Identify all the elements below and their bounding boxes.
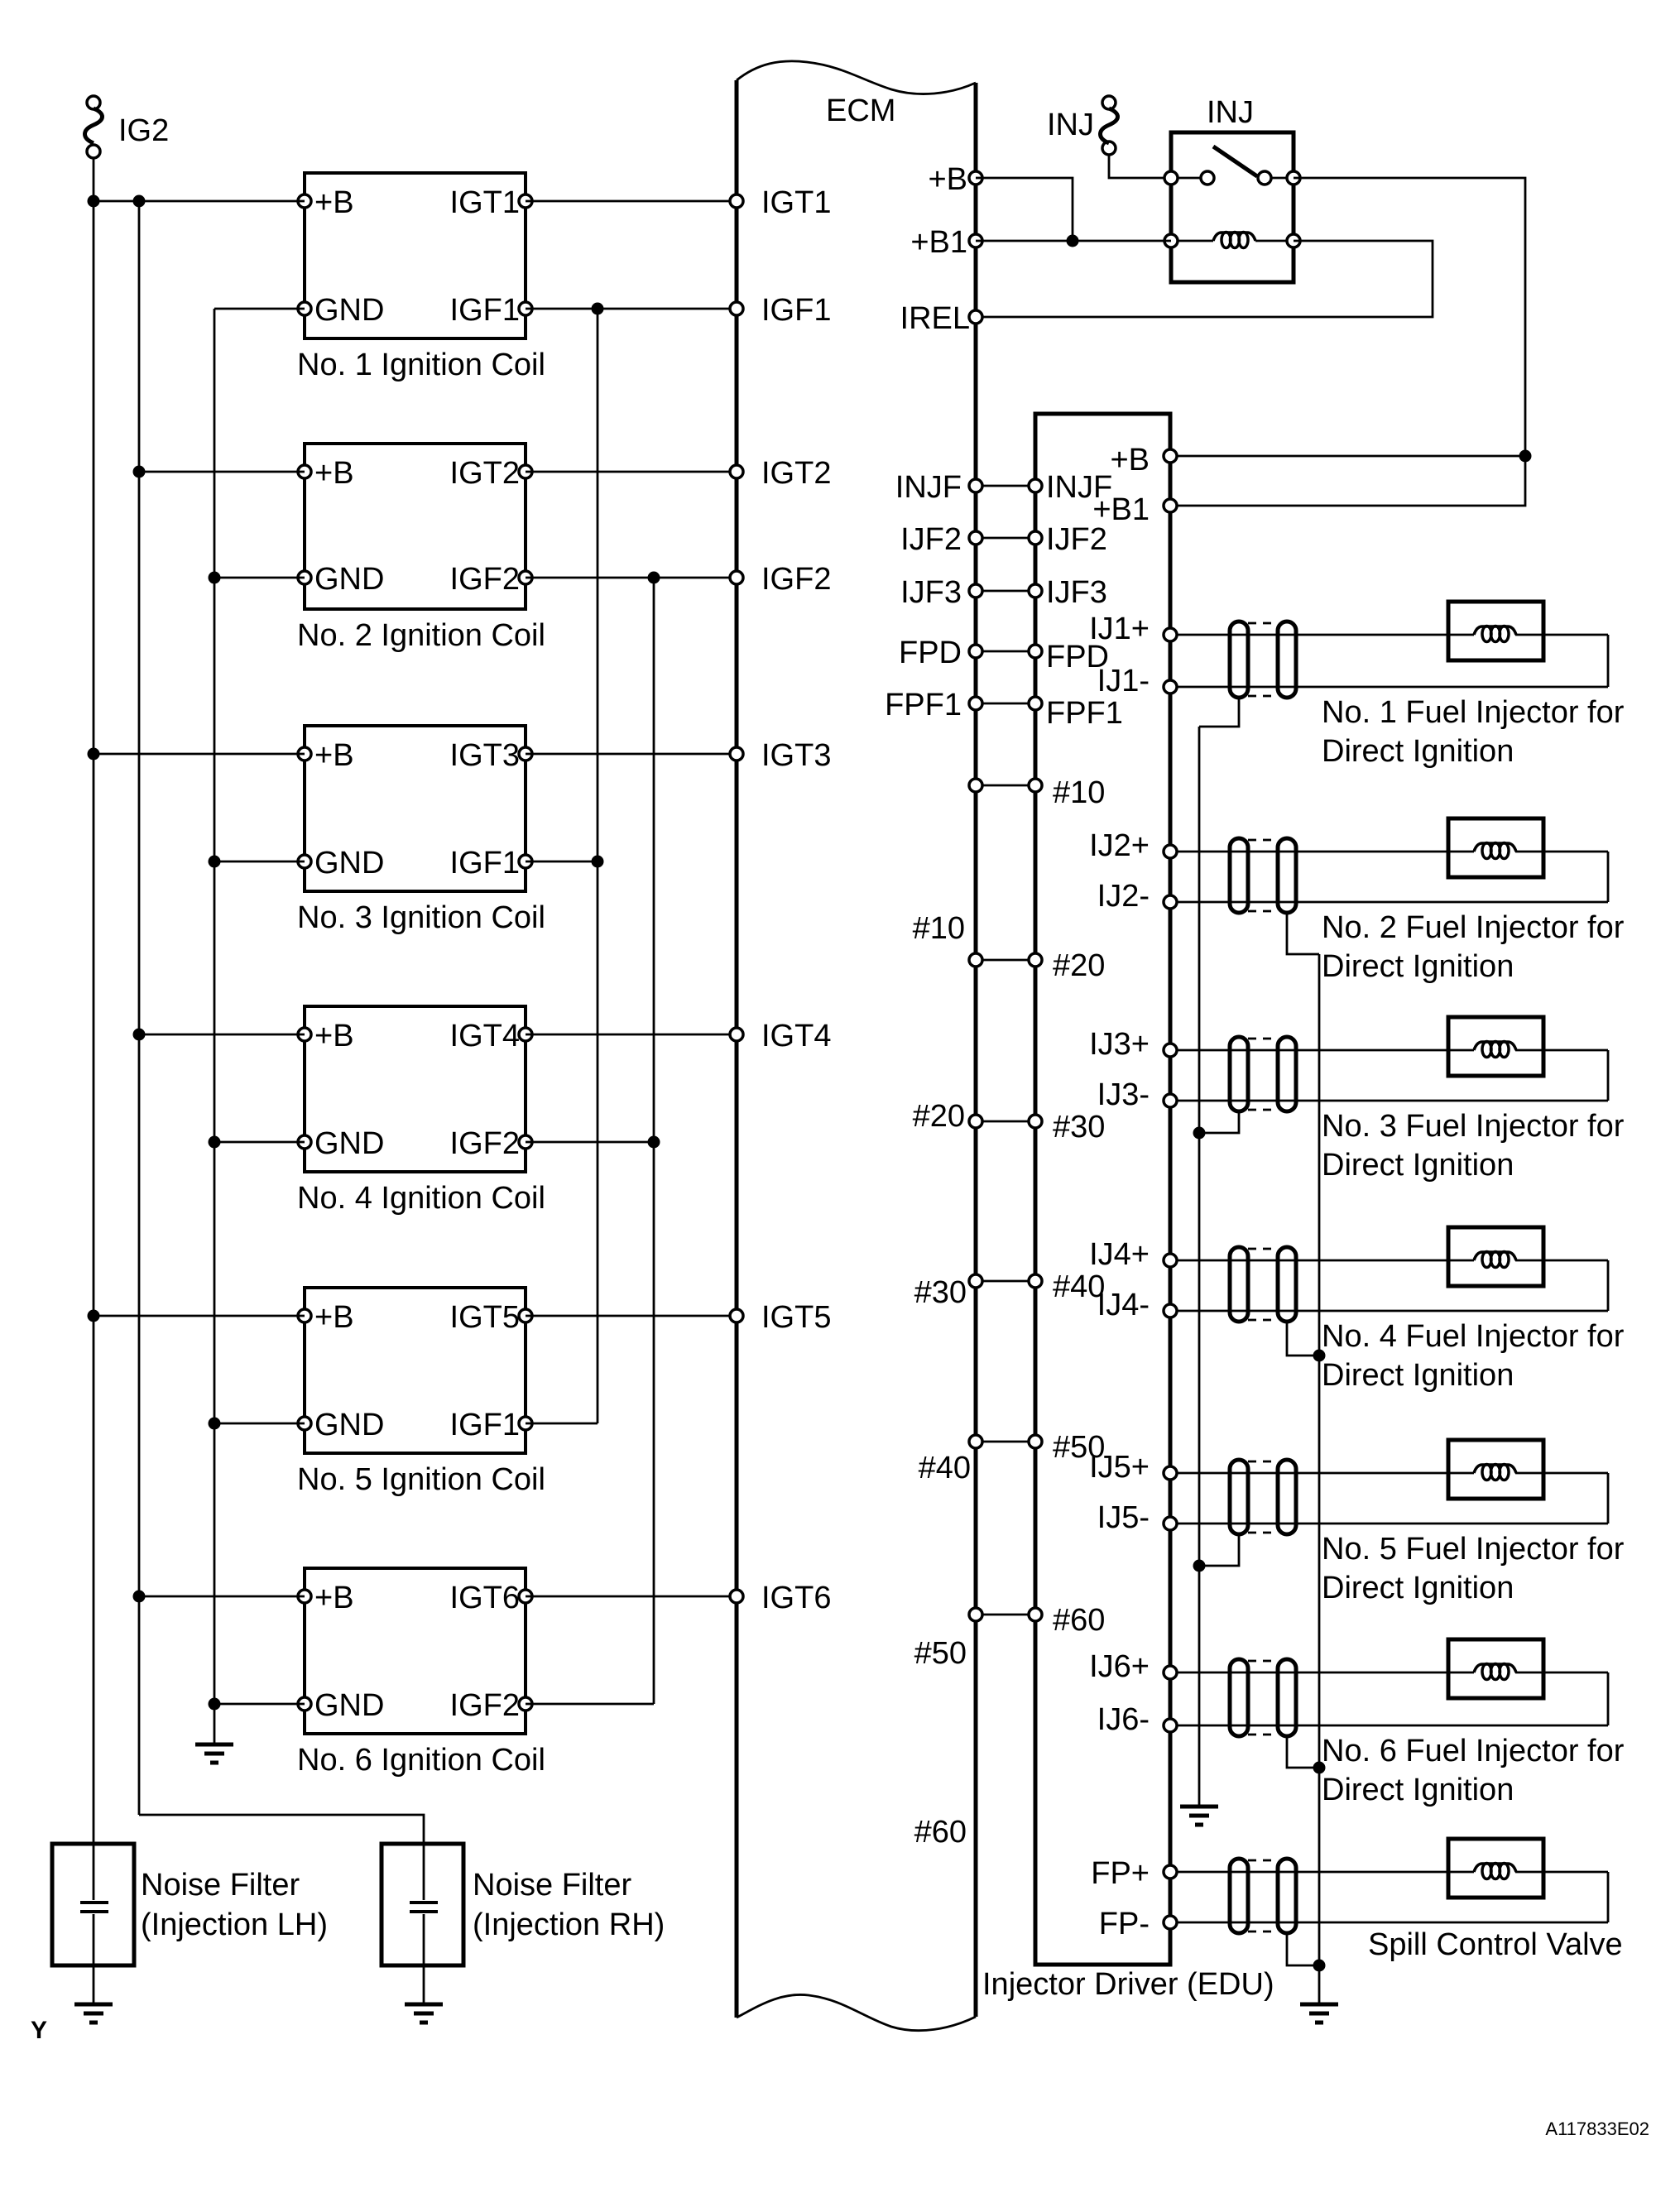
wire IGF1 coil1 to ECM (526, 308, 737, 310)
label Y (31, 2017, 47, 2044)
wire GND coil1 to L3 (214, 308, 305, 310)
ignition coil box No.1 (305, 173, 526, 338)
wire shield drain conn1 (1199, 698, 1239, 727)
svg-text:IGF1: IGF1 (450, 846, 520, 881)
label No. 2 Ignition Coil (297, 618, 545, 653)
svg-text:No. 3 Fuel Injector for: No. 3 Fuel Injector for (1322, 1109, 1625, 1144)
fuel injector 5 box (1448, 1440, 1543, 1499)
coil 4 pin +B (298, 1028, 311, 1041)
wire injector 2 return right (1607, 852, 1610, 902)
ECM top torn edge (737, 61, 976, 94)
svg-text:IGF2: IGF2 (761, 562, 831, 597)
coil 4 pin label IGT4 (450, 1019, 520, 1053)
EDU pin #50 (1029, 1435, 1042, 1448)
wire ECM-EDU IJF3 (982, 590, 1029, 593)
EDU pin label IJ4+ (1089, 1237, 1150, 1272)
EDU pin IJ4+ (1164, 1254, 1177, 1267)
EDU pin label +B1 (1092, 492, 1150, 527)
EDU pin FP- (1164, 1916, 1177, 1929)
ECM pin label IGT4 (761, 1019, 831, 1053)
svg-text:IJ6+: IJ6+ (1089, 1649, 1150, 1684)
label Spill Control Valve (1368, 1927, 1623, 1962)
EDU pin IJF2 (1029, 531, 1042, 545)
EDU pin #60 (1029, 1608, 1042, 1621)
ground symbol shield bus left (1180, 1807, 1218, 1825)
label Direct Ignition 5 (1322, 1571, 1514, 1605)
wire +B coil6 (139, 1596, 305, 1598)
EDU-side pin label #30 (1053, 1110, 1105, 1144)
wire IJ4+ to injector (1177, 1260, 1474, 1262)
coil 5 pin label IGF1 (450, 1408, 520, 1442)
wire ECM-EDU #50 (982, 1441, 1029, 1443)
coil 6 pin IGT6 (519, 1590, 532, 1603)
EDU pin FPF1 (1029, 697, 1042, 710)
svg-text:IJF2: IJF2 (1046, 522, 1107, 557)
svg-text:#30: #30 (1053, 1110, 1105, 1144)
svg-text:GND: GND (314, 1126, 384, 1161)
EDU pin IJ2+ (1164, 845, 1177, 858)
label No. 3 Fuel Injector (1322, 1109, 1625, 1144)
wire injector 3 out (1515, 1049, 1608, 1052)
svg-text:IGT1: IGT1 (761, 185, 831, 220)
ECM pin FPF1 (right edge) (969, 697, 982, 710)
connector 3 dashed bottom (1248, 1109, 1278, 1111)
junction GND row4 (209, 1136, 221, 1149)
coil 2 pin IGT2 (519, 465, 532, 478)
svg-text:No. 1 Fuel Injector for: No. 1 Fuel Injector for (1322, 695, 1625, 730)
junction GND row3 (209, 856, 221, 868)
coil 2 pin +B (298, 465, 311, 478)
wire injector 5 out (1515, 1472, 1608, 1475)
svg-text:IGT4: IGT4 (761, 1019, 831, 1053)
connector FP left oval (1230, 1859, 1248, 1933)
EDU pin #20 (1029, 953, 1042, 967)
coil 1 pin IGT1 (519, 194, 532, 208)
svg-text:IGF2: IGF2 (450, 1688, 520, 1723)
ground symbol noise filter LH (74, 2004, 113, 2023)
wire injector 3 return right (1607, 1050, 1610, 1101)
coil 6 pin label IGT6 (450, 1581, 520, 1615)
EDU-side pin label #40 (1053, 1269, 1105, 1304)
junction GND row6 (209, 1698, 221, 1711)
net label IG2 (118, 113, 169, 148)
EDU-side pin label #20 (1053, 948, 1105, 983)
ECM pin label IGF1 (761, 293, 831, 328)
wire ECM-EDU #20 (982, 959, 1029, 962)
wire ECM-EDU #40 (982, 1280, 1029, 1283)
ECM pin #20 (right edge) (969, 953, 982, 967)
EDU-side pin label INJF (1046, 470, 1112, 505)
wire +B feeder bus L1 (x=113) (93, 201, 95, 1900)
EDU-side pin label IJF3 (1046, 575, 1107, 610)
svg-text:#50: #50 (914, 1636, 967, 1671)
svg-text:IJ6-: IJ6- (1097, 1702, 1150, 1737)
wire IG2 drop (93, 158, 95, 201)
wire ECM +B to +B1 node (976, 178, 1073, 241)
EDU-side pin label #10 (1053, 775, 1105, 810)
relay contact inner right (1258, 171, 1271, 185)
svg-text:#60: #60 (914, 1815, 967, 1850)
capacitor noise filter RH (410, 1903, 438, 1912)
ignition coil box No.6 (305, 1568, 526, 1734)
wire injector 4 return to IJ4- (1177, 1310, 1608, 1312)
wire GND feeder bus L3 (x=259) (214, 309, 216, 1744)
svg-text:Direct Ignition: Direct Ignition (1322, 1571, 1514, 1605)
junction IGF1 on L4 (592, 303, 604, 315)
svg-text:+B: +B (314, 1300, 354, 1335)
junction IGF2 row4 (648, 1136, 660, 1149)
wire ECM-EDU #30 (982, 1120, 1029, 1123)
connector 1 right oval (1278, 621, 1296, 698)
svg-text:Spill Control Valve: Spill Control Valve (1368, 1927, 1623, 1962)
ECM pin label IREL (900, 301, 970, 336)
ECM pin label +B (928, 162, 967, 197)
EDU pin +B (1164, 449, 1177, 463)
EDU pin label IJ1+ (1089, 612, 1150, 646)
svg-text:IG2: IG2 (118, 113, 169, 148)
wire relay contact stub left (1178, 177, 1201, 180)
svg-text:+B: +B (1110, 443, 1150, 477)
wire injector 3 return to IJ3- (1177, 1100, 1608, 1102)
wire ECM-EDU IJF2 (982, 537, 1029, 540)
wire relay contact stub right (1271, 177, 1287, 180)
ECM left edge (735, 80, 739, 2018)
label (Injection RH) (473, 1907, 665, 1942)
ECM-side net label IJF2 (900, 522, 962, 557)
EDU pin #10 (1029, 779, 1042, 792)
junction +B row3 on L1 (88, 748, 100, 761)
svg-text:IGT6: IGT6 (450, 1581, 520, 1615)
junction drain4 (1313, 1350, 1326, 1362)
wire IGF2 coil2 to ECM (526, 577, 737, 579)
ECM pin IGT3 (730, 747, 743, 761)
wire IGF2 coil6 (526, 1703, 654, 1706)
svg-text:Direct Ignition: Direct Ignition (1322, 949, 1514, 984)
wire relay coil stub left (1178, 240, 1213, 242)
svg-text:IJF2: IJF2 (900, 522, 962, 557)
wire IGT3 (526, 753, 737, 756)
wire relay contact to EDU +B1 (1177, 178, 1525, 506)
wire IGT1 (526, 200, 737, 203)
svg-text:+B1: +B1 (1092, 492, 1150, 527)
coil 1 pin label GND (314, 293, 384, 328)
wire +B coil5 (94, 1315, 305, 1317)
ECM-side net label #10 (913, 911, 965, 946)
relay switch blade (1213, 146, 1257, 176)
coil 1 pin label +B (314, 185, 354, 220)
svg-text:IGF2: IGF2 (450, 1126, 520, 1161)
EDU pin #40 (1029, 1274, 1042, 1288)
wire shield drain conn4 (1287, 1322, 1319, 1356)
coil 1 pin GND (298, 302, 311, 315)
wire injector 5 return right (1607, 1473, 1610, 1524)
wire injector 2 return to IJ2- (1177, 901, 1608, 904)
coil 1 pin label IGT1 (450, 185, 520, 220)
wire spill valve return right (1607, 1872, 1610, 1922)
svg-text:IGF2: IGF2 (450, 562, 520, 597)
connector 1 dashed top (1248, 622, 1278, 625)
svg-text:No. 2 Fuel Injector for: No. 2 Fuel Injector for (1322, 910, 1625, 945)
coil 2 pin label IGT2 (450, 456, 520, 491)
wire shield drain conn6 (1287, 1736, 1319, 1768)
EDU pin label IJ5+ (1089, 1450, 1150, 1485)
coil 2 pin IGF2 (bottom right) (519, 571, 532, 584)
ECM pin +B1 (969, 234, 982, 247)
wire injector 1 return to IJ1- (1177, 686, 1608, 689)
svg-text:Direct Ignition: Direct Ignition (1322, 1358, 1514, 1393)
svg-text:#40: #40 (919, 1451, 971, 1485)
junction GND row5 (209, 1418, 221, 1430)
injector driver EDU box (1035, 414, 1170, 1965)
connector 4 right oval (1278, 1247, 1296, 1322)
ECM pin #30 (right edge) (969, 1115, 982, 1128)
svg-text:Injector Driver (EDU): Injector Driver (EDU) (982, 1967, 1274, 2002)
svg-text:IGT1: IGT1 (450, 185, 520, 220)
EDU-side pin label #50 (1053, 1430, 1105, 1465)
svg-text:IGT3: IGT3 (450, 738, 520, 773)
wire ECM-EDU FPD (982, 650, 1029, 653)
svg-text:Noise Filter: Noise Filter (473, 1868, 631, 1903)
wire IJ3+ to injector (1177, 1049, 1474, 1052)
ECM pin label IGT1 (761, 185, 831, 220)
svg-text:FP+: FP+ (1091, 1856, 1150, 1891)
ECM-side net label #60 (914, 1815, 967, 1850)
ECM-side net label #40 (919, 1451, 971, 1485)
coil 2 pin label GND (314, 562, 384, 597)
relay coil left pin (1164, 234, 1178, 247)
injector 5 coil winding (1474, 1465, 1516, 1480)
relay coil right pin (1287, 234, 1300, 247)
ECM pin label IGT6 (761, 1581, 831, 1615)
svg-text:INJ: INJ (1207, 95, 1254, 130)
wire IGT5 (526, 1315, 737, 1317)
connector 6 left oval (1230, 1659, 1248, 1736)
svg-text:#30: #30 (914, 1275, 967, 1310)
ECM pin IREL (969, 310, 982, 324)
connector 2 right oval (1278, 838, 1296, 913)
svg-text:A117833E02: A117833E02 (1545, 2119, 1649, 2139)
wire +B coil3 (94, 753, 305, 756)
wire ECM-EDU #10 (982, 785, 1029, 787)
ECM pin #60 (right edge) (969, 1608, 982, 1621)
svg-text:No. 4 Ignition Coil: No. 4 Ignition Coil (297, 1181, 545, 1216)
wire IJ1+ to injector (1177, 634, 1474, 636)
connector 3 left oval (1230, 1037, 1248, 1111)
node IG2 terminal symbol (85, 96, 103, 158)
coil 5 pin label +B (314, 1300, 354, 1335)
wire shield drain conn3 (1199, 1111, 1239, 1133)
connector 3 dashed top (1248, 1038, 1278, 1040)
svg-text:IGF1: IGF1 (450, 1408, 520, 1442)
wire injector 4 return right (1607, 1260, 1610, 1311)
svg-text:FPD: FPD (899, 636, 962, 670)
label Direct Ignition 2 (1322, 949, 1514, 984)
coil 4 pin label IGF2 (450, 1126, 520, 1161)
wire IJ6+ to injector (1177, 1672, 1474, 1674)
svg-text:IJ2+: IJ2+ (1089, 828, 1150, 863)
connector 6 dashed top (1248, 1660, 1278, 1663)
svg-text:+B: +B (314, 1019, 354, 1053)
svg-text:No. 4 Fuel Injector for: No. 4 Fuel Injector for (1322, 1319, 1625, 1354)
svg-text:+B: +B (314, 738, 354, 773)
fuel injector 1 box (1448, 602, 1543, 660)
junction IGF2 on L5 (648, 572, 660, 584)
EDU-side pin label FPD (1046, 640, 1109, 674)
connector 2 dashed bottom (1248, 910, 1278, 913)
svg-text:FP-: FP- (1099, 1907, 1150, 1941)
ignition coil box No.4 (305, 1006, 526, 1172)
svg-text:IREL: IREL (900, 301, 970, 336)
ECM pin label IGT5 (761, 1300, 831, 1335)
svg-text:No. 2 Ignition Coil: No. 2 Ignition Coil (297, 618, 545, 653)
ECM pin label IGT3 (761, 738, 831, 773)
svg-text:IJF3: IJF3 (1046, 575, 1107, 610)
EDU pin INJF (1029, 479, 1042, 492)
injector 6 coil winding (1474, 1664, 1516, 1680)
wire IGT2 (526, 471, 737, 473)
svg-text:GND: GND (314, 562, 384, 597)
ECM pin FPD (right edge) (969, 645, 982, 658)
connector 4 dashed top (1248, 1248, 1278, 1250)
EDU-side pin label FPF1 (1046, 696, 1123, 731)
svg-text:#10: #10 (1053, 775, 1105, 810)
coil 6 pin GND (298, 1697, 311, 1711)
wire injector 6 out (1515, 1672, 1608, 1674)
connector 1 dashed bottom (1248, 695, 1278, 698)
svg-text:#60: #60 (1053, 1603, 1105, 1638)
wire +B coil2 (139, 471, 305, 473)
EDU pin label IJ3- (1097, 1077, 1150, 1112)
EDU pin IJ6- (1164, 1719, 1177, 1732)
wire IGT6 (526, 1596, 737, 1598)
EDU-side pin label IJF2 (1046, 522, 1107, 557)
connector 6 dashed bottom (1248, 1734, 1278, 1736)
junction +B row1 on L2 (133, 195, 146, 208)
coil 6 pin label +B (314, 1581, 354, 1615)
connector 4 dashed bottom (1248, 1319, 1278, 1322)
EDU pin IJF3 (1029, 584, 1042, 597)
fuel injector 3 box (1448, 1017, 1543, 1076)
svg-text:+B: +B (314, 1581, 354, 1615)
injector 1 coil winding (1474, 626, 1516, 642)
connector 3 right oval (1278, 1037, 1296, 1111)
svg-text:FPF1: FPF1 (885, 688, 962, 722)
junction +B row2 on L2 (133, 466, 146, 478)
ECM pin IGT1 (730, 194, 743, 208)
connector FP dashed top (1248, 1859, 1278, 1862)
EDU pin FP+ (1164, 1865, 1177, 1879)
svg-text:+B1: +B1 (910, 225, 967, 260)
EDU pin IJ4- (1164, 1304, 1177, 1317)
ECM pin IGT6 (730, 1590, 743, 1603)
coil 3 pin GND (298, 855, 311, 868)
capacitor noise filter LH (80, 1903, 108, 1912)
fuel injector 2 box (1448, 818, 1543, 877)
wire GND coil3 (214, 861, 305, 863)
coil 5 pin +B (298, 1309, 311, 1322)
coil 3 pin +B (298, 747, 311, 761)
svg-text:Direct Ignition: Direct Ignition (1322, 1148, 1514, 1183)
coil 5 pin IGF1 (bottom right) (519, 1417, 532, 1430)
wire ECM-EDU #60 (982, 1614, 1029, 1616)
ECM pin #50 (right edge) (969, 1435, 982, 1448)
connector 2 dashed top (1248, 839, 1278, 842)
ECM-side net label #20 (913, 1099, 965, 1134)
svg-text:No. 5 Fuel Injector for: No. 5 Fuel Injector for (1322, 1532, 1625, 1567)
label No. 3 Ignition Coil (297, 900, 545, 935)
ground symbol shield bus right (1300, 2004, 1338, 2023)
junction IGF1 row3 (592, 856, 604, 868)
svg-text:IJF3: IJF3 (900, 575, 962, 610)
label A117833E02 (1545, 2119, 1649, 2139)
svg-text:IJ5+: IJ5+ (1089, 1450, 1150, 1485)
connector 5 right oval (1278, 1460, 1296, 1534)
ECM pin #40 (right edge) (969, 1274, 982, 1288)
connector 4 left oval (1230, 1247, 1248, 1322)
EDU pin label IJ2- (1097, 879, 1150, 914)
connector FP right oval (1278, 1859, 1296, 1933)
svg-text:(Injection RH): (Injection RH) (473, 1907, 665, 1942)
wire FP+ to spill valve (1177, 1871, 1474, 1874)
noise filter RH box (382, 1844, 463, 1965)
svg-text:IJ5-: IJ5- (1097, 1500, 1150, 1535)
fuse INJ symbol (1101, 96, 1118, 155)
coil 4 pin IGT4 (519, 1028, 532, 1041)
relay INJ box (1171, 132, 1294, 282)
EDU pin IJ1- (1164, 680, 1177, 693)
ground symbol GND bus (195, 1744, 233, 1763)
ECM pin IGT5 (730, 1309, 743, 1322)
injector 2 coil winding (1474, 843, 1516, 859)
label INJ relay (1207, 95, 1254, 130)
connector 6 right oval (1278, 1659, 1296, 1736)
label No. 4 Ignition Coil (297, 1181, 545, 1216)
ignition coil box No.5 (305, 1288, 526, 1453)
label Direct Ignition 1 (1322, 734, 1514, 769)
coil 5 pin label IGT5 (450, 1300, 520, 1335)
wire shield bus right (x=1594) (1318, 954, 1321, 1965)
svg-text:Y: Y (31, 2017, 47, 2044)
coil 3 pin IGF1 (bottom right) (519, 855, 532, 868)
fuel injector 4 box (1448, 1227, 1543, 1286)
svg-text:No. 5 Ignition Coil: No. 5 Ignition Coil (297, 1462, 545, 1497)
junction drain6 (1313, 1762, 1326, 1774)
EDU pin label FP+ (1091, 1856, 1150, 1891)
junction +B row1 on L1 (88, 195, 100, 208)
EDU pin label IJ5- (1097, 1500, 1150, 1535)
noise filter LH box (52, 1844, 134, 1965)
connector 5 dashed bottom (1248, 1532, 1278, 1534)
wire ECM-EDU INJF (982, 485, 1029, 487)
ECM-side net label INJF (895, 470, 962, 505)
svg-text:IGT4: IGT4 (450, 1019, 520, 1053)
svg-text:IJ4-: IJ4- (1097, 1288, 1150, 1322)
label No. 2 Fuel Injector (1322, 910, 1625, 945)
wire GND coil5 (214, 1423, 305, 1425)
wire L1 through NF LH (93, 1914, 95, 2004)
ECM pin IGT2 (730, 465, 743, 478)
svg-text:IGT2: IGT2 (761, 456, 831, 491)
svg-text:Direct Ignition: Direct Ignition (1322, 734, 1514, 769)
wire shield drain FP connector (1287, 1933, 1319, 1965)
svg-text:IJ2-: IJ2- (1097, 879, 1150, 914)
label No. 6 Ignition Coil (297, 1743, 545, 1778)
label Direct Ignition 6 (1322, 1773, 1514, 1807)
svg-text:No. 6 Ignition Coil: No. 6 Ignition Coil (297, 1743, 545, 1778)
coil 3 pin label IGF1 (450, 846, 520, 881)
relay coil winding (1213, 233, 1255, 248)
label (Injection LH) (141, 1907, 328, 1942)
